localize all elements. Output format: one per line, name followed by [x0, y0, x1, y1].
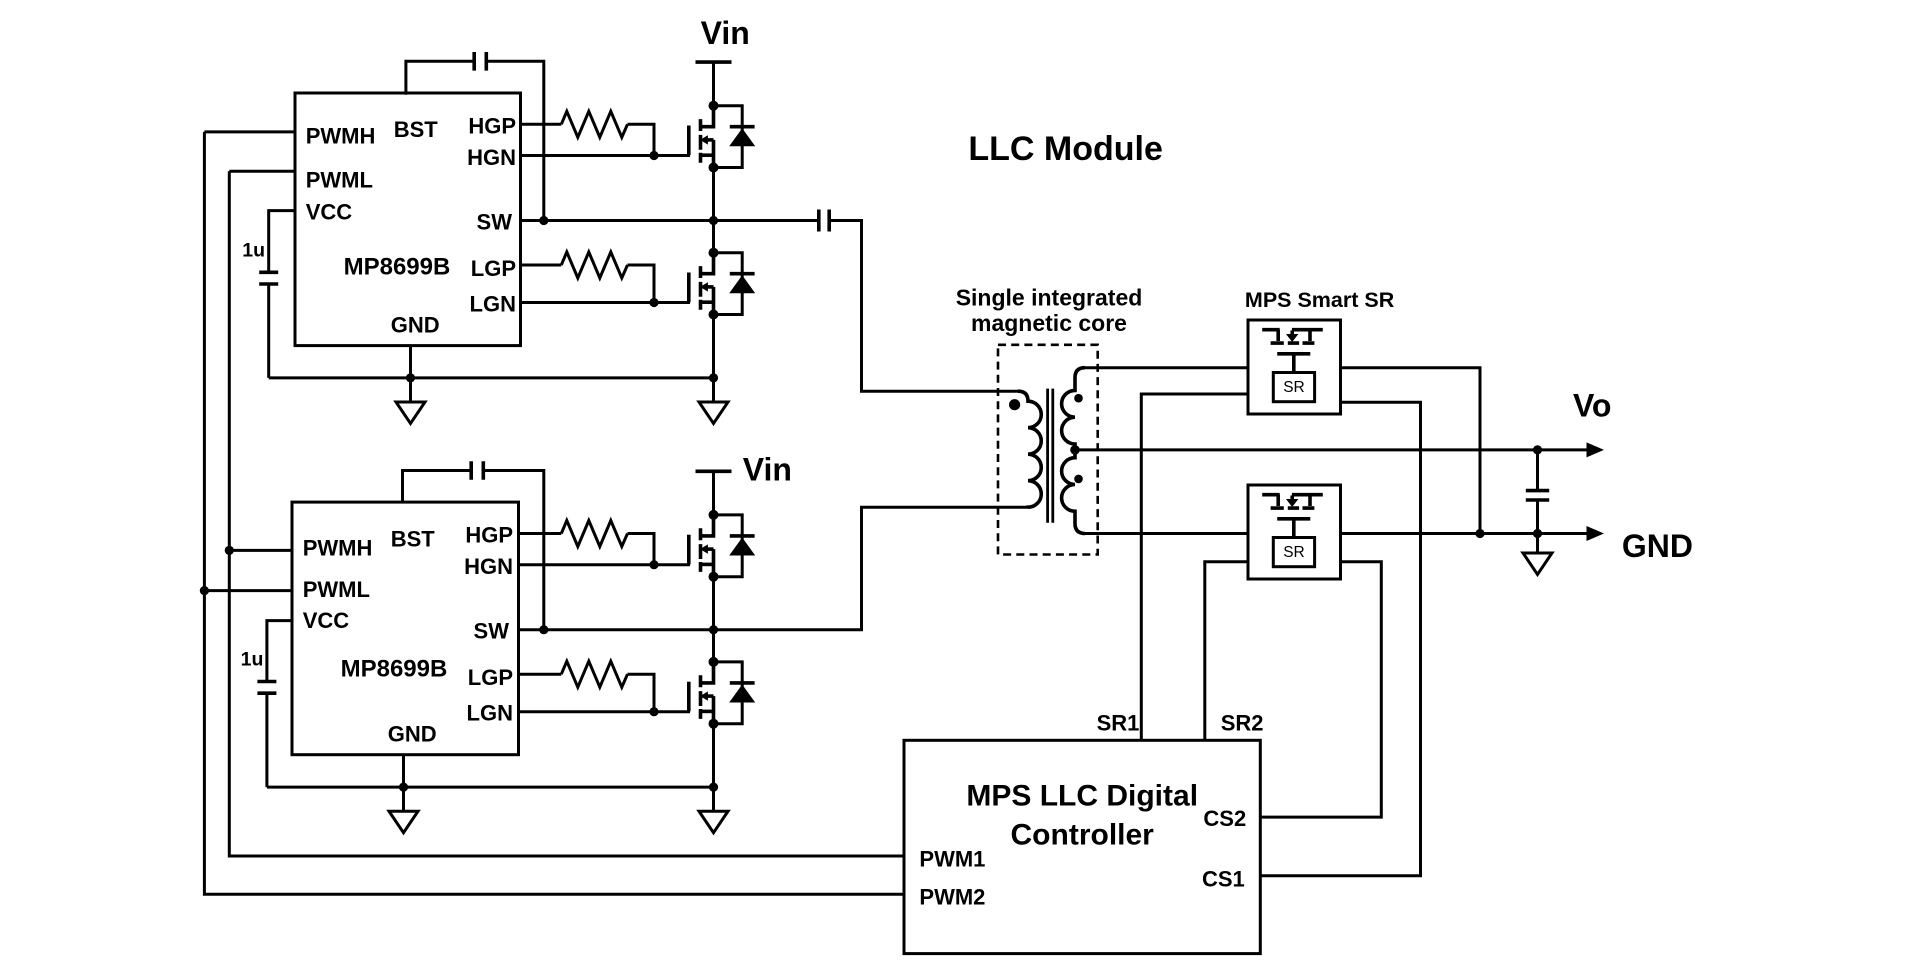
node GND / output cap	[1533, 529, 1542, 538]
wire C1 bottom to GND rail 1	[267, 284, 270, 378]
wire GND rail 1	[269, 376, 714, 379]
wire SW1 node to resonant cap	[521, 219, 819, 222]
svg-text:LGP: LGP	[471, 256, 516, 281]
svg-text:PWM2: PWM2	[919, 885, 985, 910]
svg-text:VCC: VCC	[306, 200, 353, 225]
node SW1/half-bridge mid	[709, 216, 718, 225]
wire Q2 source to GND rail 1	[712, 315, 715, 378]
svg-text:LGN: LGN	[467, 701, 513, 726]
svg-text:magnetic core: magnetic core	[971, 310, 1127, 336]
node Vo / output cap	[1533, 445, 1542, 454]
svg-text:LGP: LGP	[468, 665, 513, 690]
transformer T1 primary winding	[1018, 391, 1041, 507]
node HGN2/R3 junction	[649, 560, 658, 569]
svg-text:BST: BST	[391, 526, 436, 551]
ground (half-bridge 1 source)	[699, 402, 728, 424]
node SW2/half-bridge mid	[709, 625, 718, 634]
wire secondary bottom to SR2	[1085, 532, 1248, 535]
svg-text:Single integrated: Single integrated	[956, 285, 1143, 311]
resistor R4 (LGP2)	[561, 661, 627, 687]
wire PWML2 to bus A	[204, 589, 292, 592]
wire secondary top to SR1	[1085, 366, 1248, 369]
wire R1 out down to HGN1 node	[628, 124, 655, 155]
wire VCC1	[269, 211, 295, 273]
wire Vin1 to Q1 drain	[712, 62, 715, 106]
svg-text:MPS Smart SR: MPS Smart SR	[1245, 288, 1395, 312]
wire LGP2 to gate resistor	[519, 673, 562, 676]
svg-text:PWML: PWML	[306, 168, 373, 193]
wire HGP2 to gate resistor	[519, 532, 562, 535]
wire SR1 gate drive to controller SR1 pin	[1141, 394, 1248, 740]
Vo arrowhead	[1587, 442, 1605, 457]
wire PWMH2 to bus B	[229, 549, 292, 552]
transformer T1 secondary phase dot (bottom)	[1074, 475, 1083, 484]
svg-text:HGP: HGP	[465, 523, 513, 548]
svg-text:MP8699B: MP8699B	[341, 656, 448, 683]
wire Q4 source to GND rail 2	[712, 724, 715, 787]
svg-text:1u: 1u	[241, 649, 264, 671]
transformer T1 core	[1048, 389, 1053, 523]
wire C5 to SW2	[483, 471, 544, 630]
svg-text:GND: GND	[388, 722, 437, 747]
wire BST1	[406, 61, 474, 94]
node center tap	[1070, 445, 1080, 455]
transformer T1 secondary windings (center-tapped)	[1062, 368, 1085, 534]
wire output ground stub	[1536, 534, 1539, 554]
svg-text:Vin: Vin	[701, 15, 750, 51]
op-amp U3 MPS Smart SR block 1	[1248, 320, 1341, 414]
resistor R3 (HGP2)	[561, 521, 627, 547]
node bus B / PWMH2	[225, 546, 234, 555]
svg-text:GND: GND	[1622, 528, 1693, 564]
node GND rail 2 / U2 GND	[399, 783, 408, 792]
svg-text:SR1: SR1	[1097, 711, 1140, 736]
wire C4 bottom to GND rail 2	[265, 693, 268, 787]
IC U5 MPS LLC Digital Controller	[904, 740, 1260, 953]
svg-text:1u: 1u	[242, 240, 265, 262]
wire HGP1 to gate resistor	[521, 123, 562, 126]
node GND / SR1 return	[1475, 529, 1484, 538]
svg-text:PWMH: PWMH	[306, 124, 376, 149]
wire R2 out down to LGN1 node	[628, 265, 655, 303]
wire output cap top	[1536, 450, 1539, 491]
wire GND rail 2	[267, 786, 714, 789]
wire SR2 gate drive to controller SR2 pin	[1205, 562, 1248, 741]
capacitor C1 1u (VCC1 bypass)	[259, 272, 278, 284]
Vin supply bar 2	[696, 469, 732, 473]
svg-text:PWM1: PWM1	[919, 846, 985, 871]
wire HGN2 to gate of Q3	[519, 563, 691, 566]
svg-text:SR2: SR2	[1221, 711, 1264, 736]
wire SR2 sense to controller CS2 pin	[1260, 562, 1381, 817]
wire low-side source 2 to ground stub	[712, 787, 715, 811]
wire output cap bottom	[1536, 500, 1539, 534]
node SW1/BST cap	[539, 216, 548, 225]
node GND rail 2 / Q4 source	[709, 783, 718, 792]
ground (output)	[1523, 553, 1552, 575]
svg-text:PWMH: PWMH	[303, 536, 373, 561]
wire bus A vertical + PWM2 feed	[204, 132, 904, 894]
capacitor C5 (BST2 bootstrap)	[471, 461, 483, 480]
node HGN1/R1 junction	[649, 151, 658, 160]
node LGN1/R2 junction	[649, 298, 658, 307]
transformer T1 dashed core outline	[998, 345, 1098, 555]
svg-text:BST: BST	[394, 117, 439, 142]
wire VCC2	[267, 621, 292, 682]
capacitor C4 1u (VCC2 bypass)	[257, 682, 276, 694]
svg-text:Controller: Controller	[1011, 819, 1155, 852]
wire GND rail out	[1341, 532, 1588, 535]
wire LGN2 to gate of Q4	[519, 710, 691, 713]
svg-text:LGN: LGN	[470, 292, 516, 317]
wire Q3 source to Q4 drain (SW2 node)	[712, 577, 715, 662]
capacitor C2 (BST1 bootstrap)	[474, 52, 486, 71]
svg-text:MP8699B: MP8699B	[344, 254, 451, 281]
svg-text:HGN: HGN	[464, 554, 513, 579]
node GND rail 1 / U1 GND	[406, 373, 415, 382]
svg-text:SW: SW	[474, 619, 510, 644]
GND arrowhead	[1587, 526, 1605, 541]
resistor R2 (LGP1)	[561, 252, 627, 278]
svg-text:MPS LLC Digital: MPS LLC Digital	[966, 780, 1198, 813]
wire PWML1 to bus B	[229, 170, 295, 173]
wire R3 out down to HGN2 node	[628, 534, 655, 565]
ground (U2 GND)	[389, 811, 418, 833]
wire low-side source 1 to ground stub	[712, 378, 715, 402]
svg-text:HGP: HGP	[468, 114, 516, 139]
wire GND1 pin down	[409, 346, 412, 402]
node SW2/BST cap	[539, 625, 548, 634]
transformer T1 secondary phase dot (top)	[1074, 394, 1083, 403]
svg-text:VCC: VCC	[303, 608, 350, 633]
transistor Q1 (high-side, bridge 1)	[689, 101, 755, 173]
node bus A / PWML2	[200, 586, 209, 595]
wire R4 out down to LGN2 node	[628, 674, 655, 712]
IC U2 MP8699B (bottom half-bridge driver)	[292, 502, 519, 755]
wire BST2	[403, 471, 472, 503]
node LGN2/R4 junction	[649, 707, 658, 716]
svg-text:HGN: HGN	[467, 145, 516, 170]
transistor Q2 (low-side, bridge 1)	[689, 248, 755, 320]
Vin supply bar 1	[696, 60, 732, 64]
node GND rail 1 / Q2 source	[709, 373, 718, 382]
wire PWMH1 to bus A	[204, 130, 295, 133]
svg-text:CS2: CS2	[1203, 806, 1246, 831]
wire SW2 to transformer primary bottom	[519, 507, 1029, 629]
wire Vo rail (center tap to output)	[1075, 448, 1587, 451]
wire C3 to transformer primary top	[829, 221, 1018, 392]
svg-text:PWML: PWML	[303, 577, 370, 602]
op-amp U4 MPS Smart SR block 2	[1248, 485, 1341, 579]
transistor Q4 (low-side, bridge 2)	[689, 657, 755, 729]
wire GND2 pin down	[402, 755, 405, 812]
transistor Q3 (high-side, bridge 2)	[689, 510, 755, 582]
wire bus B vertical + PWM1 feed	[229, 171, 904, 856]
svg-text:CS1: CS1	[1202, 867, 1245, 892]
wire LGN1 to gate of Q2	[521, 301, 691, 304]
resistor R1 (HGP1)	[561, 111, 627, 137]
ground (U1 GND)	[396, 402, 425, 424]
wire LGP1 to gate resistor	[521, 264, 562, 267]
wire C2 to SW1	[486, 61, 544, 220]
wire Vin2 to Q3 drain	[712, 471, 715, 515]
IC U1 MP8699B (top half-bridge driver)	[295, 93, 521, 346]
svg-text:LLC Module: LLC Module	[968, 130, 1163, 168]
wire SR1 power out to GND bus	[1341, 368, 1481, 534]
svg-text:Vin: Vin	[743, 451, 792, 487]
svg-text:SW: SW	[477, 210, 513, 235]
svg-text:Vo: Vo	[1573, 388, 1612, 424]
capacitor C3 (resonant)	[819, 210, 829, 232]
svg-text:GND: GND	[391, 313, 440, 338]
ground (half-bridge 2 source)	[699, 811, 728, 833]
wire HGN1 to gate of Q1	[521, 154, 691, 157]
wire SR1 sense to controller CS1 pin	[1260, 402, 1420, 875]
wire Q1 source to Q2 drain (SW1 node)	[712, 168, 715, 253]
capacitor C6 (output)	[1526, 491, 1549, 500]
transformer T1 primary phase dot	[1009, 399, 1020, 410]
